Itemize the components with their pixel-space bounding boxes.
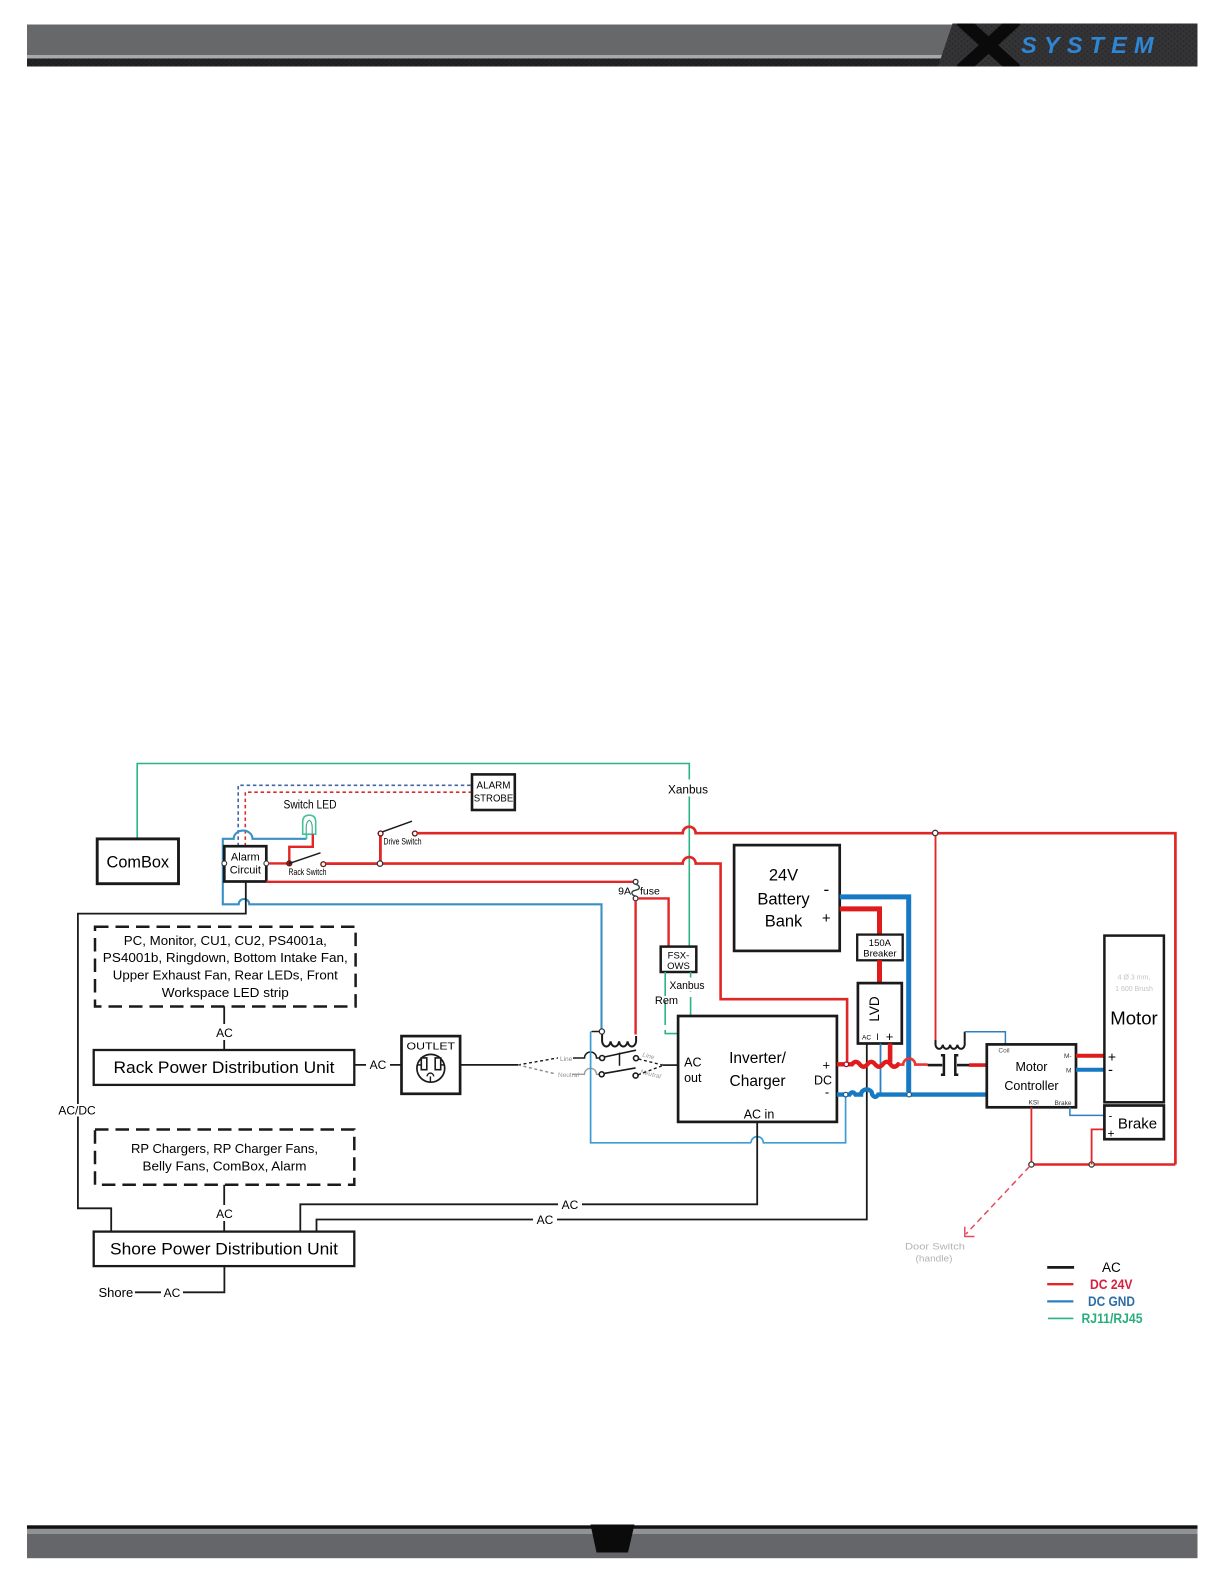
svg-text:-: - <box>1108 1062 1113 1079</box>
wire: blue continues with hop over AC-in wire <box>751 1097 846 1143</box>
svg-text:ComBox: ComBox <box>107 854 170 872</box>
svg-text:150A: 150A <box>869 938 892 949</box>
node: KSI junction <box>1029 1162 1034 1167</box>
wire: AC outlet to transfer switch fork <box>460 1064 518 1066</box>
drive switch blade <box>383 821 413 832</box>
header main gray bar <box>27 25 955 56</box>
svg-text:Alarm: Alarm <box>231 852 260 864</box>
relay coil 2 (main contactor) <box>936 1032 965 1049</box>
wire: green Xanbus line from FSX-OWS to inverter top <box>690 972 692 1016</box>
wire: black AC/DC line from alarm circuit down-left to shore box <box>78 882 246 1232</box>
svg-text:Shore Power Distribution Unit: Shore Power Distribution Unit <box>110 1241 338 1259</box>
transfer switch top blade <box>604 1050 636 1057</box>
svg-text:Line: Line <box>560 1056 573 1063</box>
svg-text:Bank: Bank <box>765 913 803 931</box>
node: transfer switch top-right contact <box>634 1056 639 1061</box>
svg-text:Rack Power Distribution Unit: Rack Power Distribution Unit <box>114 1059 335 1077</box>
svg-text:Circuit: Circuit <box>230 865 261 877</box>
wire: red DC24V bus (drive switch output, hop over green, to right bus) <box>417 827 1175 1165</box>
footer light strip <box>27 1529 1198 1534</box>
wire: dashed fork to Neutral lead <box>518 1065 556 1074</box>
node: transfer switch top-left contact <box>600 1056 605 1061</box>
svg-text:Battery: Battery <box>757 890 810 908</box>
node: Xanbus label (top) <box>666 780 710 797</box>
wire: red to 9A fuse <box>266 881 633 883</box>
wire: red up to brake + <box>1092 1129 1105 1164</box>
header X logo <box>961 20 1016 70</box>
legend DC GND line <box>1047 1300 1073 1302</box>
label: AC on LVD line <box>533 1212 557 1227</box>
svg-text:Neutral: Neutral <box>558 1072 580 1079</box>
svg-text:+: + <box>1107 1127 1114 1141</box>
wire: Neutral lead with hop (gray) <box>572 1068 599 1074</box>
wire: red DC+ hop over blue and to capacitor <box>900 1059 928 1065</box>
svg-text:Workspace LED strip: Workspace LED strip <box>162 985 289 1000</box>
svg-text:Xanbus: Xanbus <box>668 785 708 797</box>
node: junction inverter DC- <box>843 1092 848 1097</box>
svg-text:Charger: Charger <box>730 1073 786 1090</box>
inverter/charger box <box>678 1016 837 1122</box>
svg-text:RJ11/RJ45: RJ11/RJ45 <box>1082 1311 1143 1326</box>
label: AC <box>161 1285 183 1300</box>
svg-text:Brake: Brake <box>1118 1115 1157 1132</box>
label: AC <box>366 1057 390 1072</box>
node: alarm box left terminal <box>222 861 227 866</box>
svg-text:PC, Monitor, CU1, CU2, PS4001a: PC, Monitor, CU1, CU2, PS4001a, <box>124 933 327 948</box>
svg-text:Upper Exhaust Fan, Rear LEDs,: Upper Exhaust Fan, Rear LEDs, Front <box>113 967 338 982</box>
wire: black stub left of junction <box>592 1031 600 1033</box>
node: drive switch right contact <box>413 831 418 836</box>
wire: red bottom return bus <box>1031 1163 1175 1165</box>
wire: blue thin coil return to motor controller Coil pin <box>965 1032 1006 1045</box>
node: alarm box right terminal <box>264 861 269 866</box>
rack switch blade <box>289 853 320 864</box>
wire: red DC24V branch (rack line, hop over green, down to inverter DC+) <box>380 857 847 1062</box>
svg-text:M: M <box>1066 1068 1071 1075</box>
svg-text:SYSTEM: SYSTEM <box>1021 32 1161 58</box>
svg-text:LVD: LVD <box>867 996 882 1022</box>
wire: solid into inverter AC out <box>663 1064 679 1066</box>
capacitor: left lead <box>928 1064 943 1067</box>
fuse 9A element <box>632 884 640 896</box>
wire: dashed from bottom-right contact to AC out <box>638 1066 663 1075</box>
node: relay coil junction on blue <box>599 1029 604 1034</box>
footer center trapezoid tab <box>591 1525 635 1553</box>
capacitor plates <box>941 1055 958 1074</box>
motor controller box <box>987 1044 1076 1107</box>
dashed load box 2 <box>95 1130 354 1185</box>
wire: red capacitor to motor controller B+ <box>969 1063 987 1067</box>
wire: blue down from relay stub to inverter AC-in return <box>591 1032 751 1143</box>
wire: red LED anode to rack switch junction <box>289 834 313 863</box>
svg-text:Brake: Brake <box>1055 1100 1072 1107</box>
svg-text:Drive Switch: Drive Switch <box>384 837 422 848</box>
node: rack switch junction dot <box>287 861 292 866</box>
header dark textured base strip <box>27 58 1198 67</box>
svg-text:AC: AC <box>216 1026 233 1040</box>
switch LED lamp symbol <box>303 815 316 834</box>
svg-text:Rem: Rem <box>655 995 678 1007</box>
svg-text:PS4001b, Ringdown, Bottom Inta: PS4001b, Ringdown, Bottom Intake Fan, <box>103 950 348 965</box>
svg-text:+: + <box>886 1029 894 1044</box>
wire: thick red battery positive to breaker <box>840 909 880 935</box>
svg-text:M-: M- <box>1064 1053 1072 1060</box>
svg-text:Motor: Motor <box>1016 1060 1048 1074</box>
svg-text:-: - <box>823 880 829 899</box>
wire: blue dashed alarm-strobe line <box>238 785 472 846</box>
capacitor: right lead <box>957 1064 969 1067</box>
svg-text:+: + <box>823 1058 831 1073</box>
wire: dashed from top-right contact to AC out <box>639 1059 663 1065</box>
svg-text:Shore: Shore <box>99 1285 134 1300</box>
dashed load box 1 <box>95 927 356 1007</box>
wire: Line lead with hop over blue <box>573 1052 600 1058</box>
wire: AC from rack PDU to outlet <box>354 1064 401 1066</box>
wire: AC drop from load box 1 to rack PDU <box>223 1007 225 1051</box>
node: rack switch contact <box>321 862 326 867</box>
node: junction inverter DC+ <box>844 1062 849 1067</box>
legend <box>1047 1260 1143 1326</box>
wire: black AC in drop to shore box <box>300 1122 757 1232</box>
svg-text:1 600 Brush: 1 600 Brush <box>1115 986 1153 993</box>
svg-text:ALARM: ALARM <box>477 781 511 792</box>
svg-text:out: out <box>684 1071 702 1085</box>
svg-text:Xanbus: Xanbus <box>670 980 705 992</box>
wire: blue M to motor - <box>1076 1068 1104 1072</box>
wire: green RJ11 net ComBox to top bus to FSX-OWS <box>137 764 689 947</box>
shore power distribution unit box <box>94 1232 355 1267</box>
svg-text:RP Chargers, RP Charger Fans,: RP Chargers, RP Charger Fans, <box>131 1141 318 1156</box>
brake box <box>1104 1106 1164 1141</box>
svg-text:DC GND: DC GND <box>1088 1294 1135 1309</box>
svg-text:AC: AC <box>1102 1260 1121 1275</box>
wire: red fuse branch to FSX-OWS <box>638 898 669 946</box>
wire: red tap down to pump coil 2 <box>935 836 937 1040</box>
wire: LVD I blue lead <box>880 1044 882 1093</box>
label: AC on AC-in line <box>558 1197 582 1212</box>
svg-text:AC: AC <box>562 1198 579 1212</box>
FSX-OWS box <box>661 947 697 972</box>
svg-text:OUTLET: OUTLET <box>407 1041 456 1053</box>
label: AC <box>213 1205 236 1221</box>
svg-text:KSI: KSI <box>1029 1100 1040 1107</box>
svg-text:AC: AC <box>862 1035 871 1042</box>
outlet box <box>402 1036 461 1094</box>
svg-text:Rack Switch: Rack Switch <box>289 867 327 878</box>
svg-text:AC: AC <box>216 1207 233 1221</box>
alarm strobe box <box>472 774 515 810</box>
svg-text:AC/DC: AC/DC <box>58 1104 96 1118</box>
legend AC line <box>1047 1266 1074 1269</box>
svg-text:fuse: fuse <box>640 886 660 898</box>
svg-text:-: - <box>1109 1111 1113 1123</box>
transfer switch link tick <box>619 1053 621 1066</box>
svg-text:I: I <box>876 1032 879 1042</box>
header light gray strip <box>27 55 945 59</box>
svg-text:STROBE: STROBE <box>474 794 514 805</box>
node: transfer switch bottom-left contact <box>599 1072 604 1077</box>
svg-text:Motor: Motor <box>1110 1009 1158 1029</box>
wire: KSI red drop <box>1030 1107 1032 1164</box>
wire: LVD AC black lead down and to shore box <box>317 1044 867 1232</box>
wire: red fuse output down to relay coil <box>634 901 636 1035</box>
alarm circuit box <box>224 846 266 881</box>
svg-text:AC: AC <box>164 1286 181 1300</box>
svg-text:+: + <box>822 910 831 927</box>
wire: LVD + thick red lead <box>888 1044 893 1063</box>
footer gray bar <box>27 1534 1198 1559</box>
svg-text:4 Ø 3 mm,: 4 Ø 3 mm, <box>1118 975 1151 982</box>
node: fuse top terminal <box>633 879 638 884</box>
150A breaker box <box>857 935 903 961</box>
24V battery bank box <box>734 845 840 951</box>
svg-text:Door Switch: Door Switch <box>905 1242 965 1252</box>
svg-text:Belly Fans, ComBox, Alarm: Belly Fans, ComBox, Alarm <box>143 1159 307 1174</box>
svg-text:24V: 24V <box>769 867 798 885</box>
wire: thick blue battery negative <box>840 897 909 1092</box>
svg-text:Controller: Controller <box>1004 1079 1058 1093</box>
wire: dashed fork to Line lead <box>518 1058 558 1065</box>
wire: thick red DC+ from inverter with shunt squiggle <box>837 1062 900 1067</box>
svg-text:DC: DC <box>814 1074 832 1088</box>
transfer switch bottom blade <box>604 1068 635 1074</box>
wire: thick blue DC- from inverter with squiggle and hop <box>837 1089 987 1096</box>
svg-text:AC in: AC in <box>744 1107 775 1121</box>
motor box <box>1104 936 1164 1103</box>
node: drive switch junction <box>377 861 382 866</box>
wire: thick red breaker to LVD <box>877 960 882 983</box>
rack power distribution unit box <box>94 1050 355 1085</box>
svg-text:Switch LED: Switch LED <box>284 800 337 812</box>
node: drive switch left contact <box>378 831 383 836</box>
wire: AC drop from load box 2 to shore PDU <box>223 1185 225 1232</box>
svg-text:Inverter/: Inverter/ <box>729 1050 787 1067</box>
wire: red rack contact to drive junction <box>326 862 380 865</box>
wire: red M- to motor + <box>1076 1054 1104 1058</box>
node: fuse bottom terminal <box>633 896 638 901</box>
label: AC <box>213 1024 236 1040</box>
relay coil 1 (transfer relay) <box>602 1034 636 1046</box>
svg-text:OWS: OWS <box>667 961 690 972</box>
wire: red dashed alarm-strobe line <box>245 792 472 846</box>
dashed door switch arrow <box>965 1167 1030 1237</box>
svg-text:Line: Line <box>642 1052 656 1062</box>
svg-text:(handle): (handle) <box>916 1254 953 1264</box>
svg-text:Breaker: Breaker <box>863 949 896 960</box>
header dark carbon band <box>938 24 1198 67</box>
svg-text:Coil: Coil <box>998 1048 1010 1055</box>
wire: blue DC GND from LED around alarm box to transfer relay <box>223 831 602 1029</box>
svg-text:AC: AC <box>684 1056 701 1070</box>
footer black line <box>27 1525 1198 1529</box>
wire: red drive junction riser <box>379 836 382 861</box>
svg-text:DC 24V: DC 24V <box>1090 1277 1133 1292</box>
node: brake junction <box>1089 1162 1094 1167</box>
node: Xanbus label (lower) <box>668 978 706 992</box>
wire: red alarm terminal to rack switch <box>269 862 290 864</box>
svg-text:9A: 9A <box>618 886 631 898</box>
node: transfer switch bottom-right contact <box>633 1073 638 1078</box>
node: red bus junction at coil tap <box>933 830 938 835</box>
svg-text:AC: AC <box>537 1213 554 1227</box>
svg-text:FSX-: FSX- <box>668 951 690 962</box>
node: junction battery blue tee <box>907 1092 912 1097</box>
ComBox box <box>97 839 178 884</box>
legend DC 24V line <box>1047 1283 1073 1285</box>
svg-text:-: - <box>825 1085 829 1100</box>
wire: brake pin to brake box <box>1070 1107 1105 1115</box>
wire: green Rem line from FSX-OWS to inverter left <box>665 972 678 1034</box>
wire: teal LED cathode stub <box>306 834 308 840</box>
LVD box <box>858 983 902 1044</box>
svg-text:AC: AC <box>370 1058 387 1072</box>
wire: shore AC feed <box>135 1266 225 1292</box>
legend RJ11/RJ45 line <box>1048 1317 1073 1319</box>
